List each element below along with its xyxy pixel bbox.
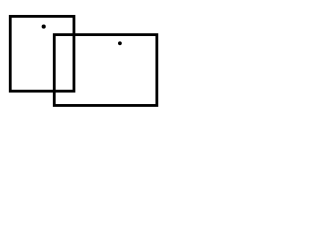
dot 1 — [42, 25, 46, 29]
rectangle 1 (back card outline) — [10, 16, 74, 91]
rectangle 2 (front card outline) — [54, 35, 157, 106]
dot 2 — [118, 41, 122, 45]
